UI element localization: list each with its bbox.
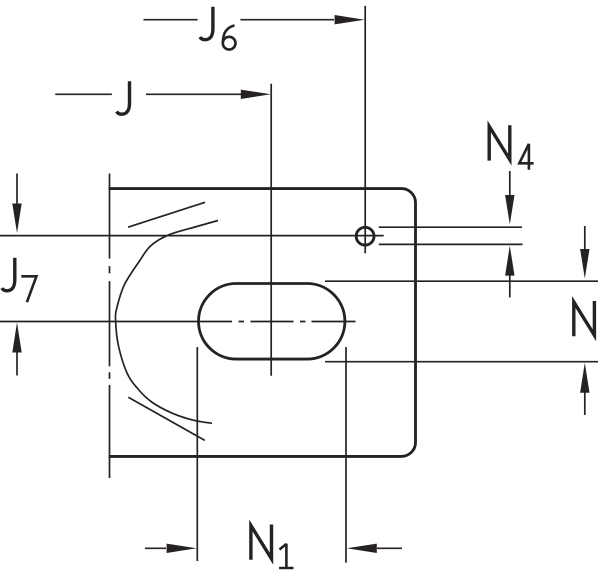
N1 right arrow (377, 547, 402, 549)
arrowhead J6 (335, 15, 365, 24)
N up arrow (584, 391, 586, 415)
dimension line J (55, 93, 241, 95)
extension line for J6 (hole vertical centerline) (364, 6, 366, 253)
label N (574, 301, 595, 336)
label J7 (2, 258, 15, 291)
lower break line (128, 397, 205, 440)
label N1 (251, 525, 272, 560)
N1 left extension line (196, 347, 198, 561)
label J (117, 81, 130, 114)
label N4 (489, 125, 510, 160)
N4 lower extension line (379, 243, 523, 245)
body silhouette arc (115, 221, 218, 424)
label J6 (200, 7, 213, 40)
extension line for J (slot vertical centerline) (270, 84, 272, 376)
upper break line (128, 202, 205, 227)
N down arrow (584, 226, 586, 252)
part axis centerline (left, dash-dot) (109, 174, 111, 479)
arrowhead J (241, 90, 271, 99)
N4 up arrow (509, 272, 511, 297)
part outline (109, 189, 416, 457)
N4 upper extension line (379, 226, 522, 228)
dimension line J6 (144, 19, 335, 21)
slot (elongated hole) (199, 284, 345, 360)
J7 down arrow (16, 174, 18, 206)
N upper extension line (325, 280, 598, 282)
N4 down arrow (509, 171, 511, 200)
N1 left arrow (145, 547, 166, 549)
J7 up arrow (16, 352, 18, 376)
slot horizontal centerline / J7 lower extension line (0, 321, 356, 323)
hole horizontal centerline / J7 upper extension line (0, 235, 384, 237)
N1 right extension line (345, 347, 347, 563)
hole circle (356, 227, 374, 245)
N lower extension line (325, 361, 598, 363)
